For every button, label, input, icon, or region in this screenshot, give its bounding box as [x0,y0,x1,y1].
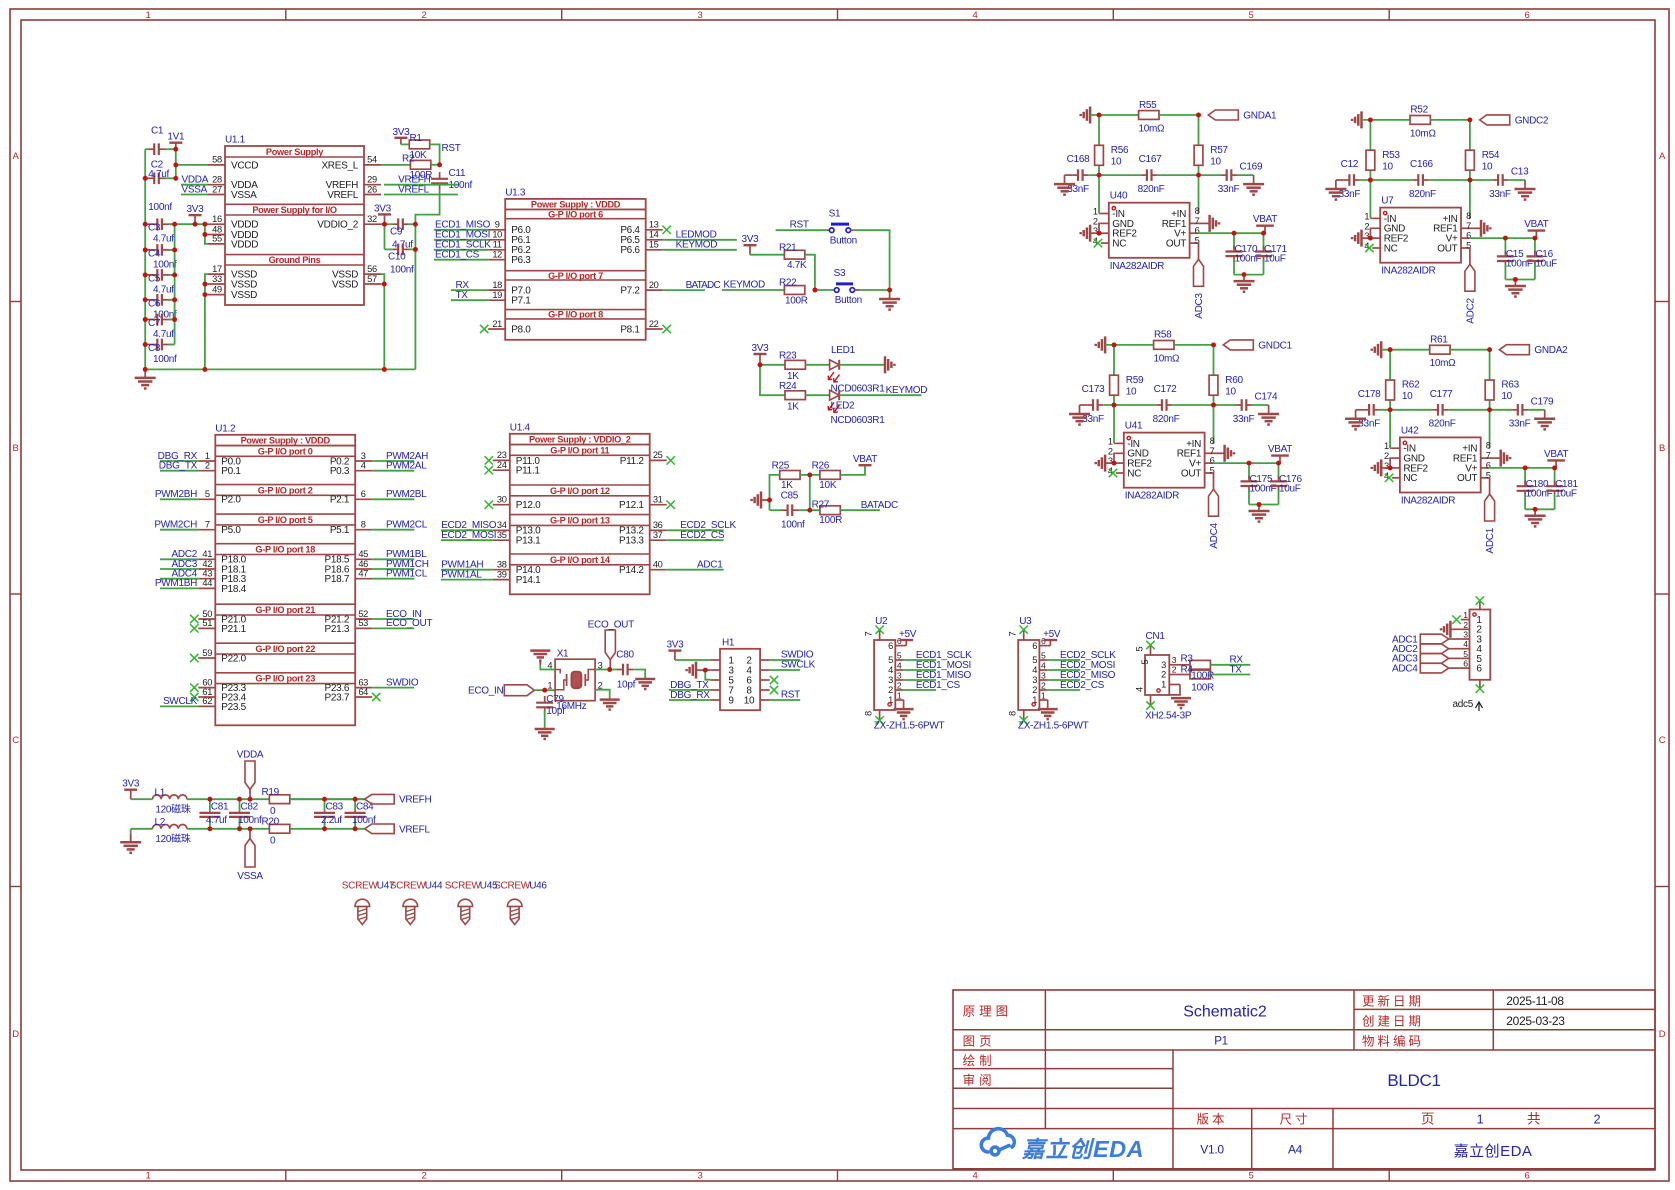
ground below C15 [1514,280,1516,287]
svg-text:C7: C7 [148,318,161,329]
wire R21 to KEYMOD node [805,255,815,290]
U1.2 section banner 'G-P I/O port 5' [215,513,355,515]
wire C79 to ground [544,711,546,730]
svg-text:46: 46 [358,559,368,569]
resistor R3 [1180,664,1190,666]
capacitor C15 [1504,238,1506,253]
wire bus down to U40 pin 1 [1098,175,1100,213]
wire U7 OUT to ADC2 flag [1468,248,1471,264]
net label RST wire from H1 [770,699,801,701]
U1.1 section banner 'Ground Pins' [225,254,364,256]
svg-text:820nF: 820nF [1138,184,1165,195]
svg-text:100nf: 100nf [153,259,177,270]
svg-text:PWM1AL: PWM1AL [441,569,482,580]
resistor R59 [1110,375,1119,395]
wire U40 OUT to ADC3 flag [1197,243,1200,259]
U1.4 pin 31 P12.1 [650,504,667,506]
junction [173,147,178,152]
svg-text:5: 5 [1140,660,1150,665]
U1.2 pin 7 P5.0 [198,529,215,531]
capacitor C171 [1263,233,1265,248]
capacitor C179 [1512,409,1518,411]
net label ECD2_SCLK wire from U1.4 [667,529,724,531]
wire C6 right to 3V3 rail [169,299,175,301]
wire L2 to VSSA rail [187,828,365,830]
wire LED2 KEYMOD [839,394,921,396]
ground at adc5 pin2 [1449,621,1452,638]
svg-text:TX: TX [456,290,469,301]
svg-text:1: 1 [205,451,210,461]
U1.4 pin 30 P12.0 [493,504,510,506]
svg-text:8: 8 [1008,711,1018,716]
wire C15 C16 bottom tie [1505,279,1535,281]
svg-text:7: 7 [1008,632,1018,637]
U1.2 section banner 'G-P I/O port 23' [215,672,355,674]
net label ADC2 wire to U1.2 [160,558,198,560]
net label BATADC wire from U1.3 [663,289,705,291]
no-connect adc5 pin1 [1452,615,1460,623]
svg-text:C168: C168 [1067,154,1090,165]
U2 pin 2 [895,689,903,691]
U1.2 pin 4 P0.3 [355,470,372,472]
svg-text:13: 13 [649,220,659,230]
U1.1 pin 33 VSSD [208,283,225,285]
wire C175 C176 bottom tie [1249,504,1279,506]
power flag +5V at U3 [1048,645,1051,647]
U3 pin 7 no-connect [1023,630,1025,640]
svg-text:OUT: OUT [1437,243,1457,254]
svg-text:3V3: 3V3 [742,234,760,245]
net label ECD2_MOSI wire from U3 [1048,669,1081,671]
svg-text:NC: NC [1112,239,1126,250]
svg-text:ADC3: ADC3 [1194,293,1205,319]
junction [203,292,208,297]
ground at U2 [894,708,914,711]
U1.3 pin 20 P7.2 [646,289,663,291]
H1 pin 9 [710,699,720,701]
svg-text:VDDD: VDDD [231,239,258,250]
capacitor C85 [770,509,782,511]
IC block U1.1 outline [225,146,364,305]
wire C166 to C13 [1429,179,1493,181]
resistor R62 [1386,380,1395,400]
net label KEYMOD wire to R22 [722,289,785,291]
svg-text:10: 10 [1382,161,1393,172]
svg-text:R57: R57 [1210,145,1228,156]
wire X1 pin3 node [595,669,618,671]
svg-text:C5: C5 [148,273,161,284]
wire R25 to R26 [800,474,820,476]
svg-text:5: 5 [888,655,893,665]
wire VDDIO_2 pin 32 to 3V3 and C9 [381,223,392,225]
wire C172 to C174 [1172,404,1236,406]
U1.2 section banner 'G-P I/O port 0' [215,445,355,447]
power flag 3V3 at C9 [384,214,386,224]
svg-text:VBAT: VBAT [1524,219,1548,230]
ground symbol left of R58 [1104,336,1107,353]
svg-text:33: 33 [212,274,222,284]
svg-text:L1: L1 [155,788,166,799]
svg-text:DBG_RX: DBG_RX [670,690,710,701]
svg-text:V1.0: V1.0 [1200,1143,1224,1157]
svg-text:C174: C174 [1255,392,1278,403]
junction [1487,347,1492,352]
svg-text:GNDC2: GNDC2 [1515,115,1549,126]
U1.2 pin 53 P21.3 [355,627,372,629]
net label ECD2_MOSI wire to U1.4 [441,539,493,541]
svg-text:C166: C166 [1410,159,1433,170]
svg-text:R20: R20 [262,817,280,828]
svg-text:2: 2 [897,681,902,691]
svg-text:R56: R56 [1111,145,1129,156]
svg-text:PWM2AL: PWM2AL [386,461,427,472]
svg-text:P13.1: P13.1 [516,536,541,547]
wire C3 right to 3V3 rail [169,223,175,225]
svg-text:33nF: 33nF [1489,189,1511,200]
net label VDDA wire to pin 28 [181,184,208,186]
wire C3-C8 right vertical [174,224,176,344]
wire bus down to U7 pin 8 [1469,180,1471,218]
U1.2 pin 59 P22.0 [198,657,215,659]
junction [413,222,418,227]
svg-text:40: 40 [653,560,663,570]
capacitor C10 [393,248,399,250]
wire C4 right to 3V3 rail [169,249,175,251]
svg-text:3: 3 [1172,655,1177,665]
U42 pin 4 NC [1392,477,1400,479]
U1.1 pin 16 VDDD [208,223,225,225]
U1.3 pin 15 P6.6 [646,249,663,251]
resistor R63 [1485,380,1494,400]
net flag ADC4 [1209,489,1219,516]
net label ECO_IN wire from U1.2 [372,618,414,620]
net label ADC1 wire from U1.4 [667,569,724,571]
svg-text:OUT: OUT [1166,239,1186,250]
junction [1097,173,1102,178]
svg-text:2: 2 [1108,446,1113,456]
wire ground to R58 [1105,344,1153,346]
U1.2 pin 62 P23.5 [198,705,215,707]
resistor R1 [401,143,409,145]
svg-text:C4: C4 [148,248,161,259]
resistor R52 (shunt) [1410,116,1430,125]
net label ECD2_MISO wire from U3 [1048,679,1081,681]
svg-text:KEYMOD: KEYMOD [676,240,718,251]
wire 3V3 to H1 pin1 [675,659,711,661]
svg-text:1: 1 [1093,207,1098,217]
net flag ECO_IN [504,685,534,696]
junction [322,797,327,802]
net label VREFL wire [384,194,458,196]
ground at U7 REF1 [1469,227,1481,229]
svg-text:页: 页 [1421,1112,1435,1127]
ground at X1 pin4 [540,662,555,670]
svg-text:39: 39 [497,569,507,579]
U7 pin 2 GND [1372,227,1380,229]
junction [1211,403,1216,408]
svg-text:ECD2_MOSI: ECD2_MOSI [441,530,496,541]
svg-text:P0.1: P0.1 [221,466,241,477]
capacitor C7 [145,319,158,321]
wire bus C168 to C167 [1088,174,1141,176]
resistor R55 (shunt) [1139,111,1159,120]
svg-text:H1: H1 [722,637,735,648]
svg-text:10: 10 [744,695,755,706]
U1.2 pin 41 P18.0 [198,558,215,560]
svg-text:3: 3 [1032,675,1037,685]
svg-text:R27: R27 [812,500,830,511]
svg-text:8: 8 [1195,206,1200,216]
svg-text:2: 2 [1041,681,1046,691]
svg-text:2: 2 [422,1171,427,1182]
svg-text:C3: C3 [148,223,161,234]
svg-text:P14.2: P14.2 [619,565,644,576]
ground below C179 [1528,409,1545,411]
svg-text:C80: C80 [616,650,634,661]
svg-text:100nf: 100nf [148,202,172,213]
capacitor C9 [393,223,399,225]
svg-text:+5V: +5V [899,629,917,640]
junction [143,367,148,372]
U1.2 pin 43 P18.3 [198,578,215,580]
svg-text:嘉立创EDA: 嘉立创EDA [1454,1143,1533,1160]
power flag 3V3 at H1 [674,651,676,660]
wire VDDD pins 16 48 55 tie [205,224,208,244]
U1.3 pin 18 P7.0 [488,289,505,291]
U1.3 section banner 'G-P I/O port 6' [505,208,646,210]
capacitor C170 [1233,233,1235,248]
svg-text:23: 23 [497,450,507,460]
ground symbol bottom left [144,369,146,378]
svg-text:6: 6 [1525,1171,1530,1182]
svg-text:2: 2 [1384,451,1389,461]
capacitor C1 [149,148,155,150]
net label PWM2CH wire to U1.2 [160,529,198,531]
net flag ADC1 [1485,494,1495,521]
svg-text:33nF: 33nF [1509,419,1531,430]
svg-text:LED1: LED1 [831,345,856,356]
capacitor C84 [354,799,356,811]
U41 pin 6 V+ [1205,462,1213,464]
svg-text:5: 5 [897,651,902,661]
svg-text:P23.7: P23.7 [325,692,350,703]
junction [1388,466,1393,471]
svg-text:Ground Pins: Ground Pins [269,255,321,265]
U1.4 section banner 'G-P I/O port 13' [510,514,650,516]
svg-text:P2.1: P2.1 [330,495,350,506]
title block grid lines [953,1029,1655,1031]
net flag ADC3 [1194,259,1204,286]
svg-text:C81: C81 [211,801,229,812]
svg-text:1K: 1K [781,480,793,491]
junction [1196,113,1201,118]
svg-text:P6.3: P6.3 [511,255,531,266]
svg-text:33nF: 33nF [1082,414,1104,425]
ground at C79 [535,728,555,731]
ground symbol left of R52 [1360,111,1363,128]
svg-text:P22.0: P22.0 [221,653,246,664]
U1.2 pin 61 P23.4 [198,696,215,698]
svg-text:A: A [12,151,19,162]
svg-text:4: 4 [1463,639,1468,649]
svg-text:P18.4: P18.4 [221,584,246,595]
svg-text:10: 10 [1111,157,1122,168]
svg-text:1: 1 [1041,691,1046,701]
svg-text:INA282AIDR: INA282AIDR [1125,491,1179,502]
U3 pin 2 [1039,689,1047,691]
U1.3 pin 9 P6.0 [488,229,505,231]
H1 pin 6 [760,679,770,681]
U1.4 section banner 'G-P I/O port 12' [510,484,650,486]
svg-text:3: 3 [1161,660,1166,670]
wire ECO_IN to X1 pin1 [534,689,555,691]
svg-text:4: 4 [1041,661,1046,671]
svg-text:P7.2: P7.2 [620,286,640,297]
wire X1 pin2 to ground [595,690,610,700]
svg-text:58: 58 [212,155,222,165]
svg-text:100nf: 100nf [781,520,805,531]
svg-text:G-P I/O port 12: G-P I/O port 12 [550,486,610,496]
resistor R21 [784,250,804,259]
power flag 3V3 at R21 [749,245,751,255]
svg-text:RST: RST [442,143,461,154]
ground below C168 [1065,174,1073,176]
connector U2 ZX-ZH1.5-6PWT outline [874,640,895,710]
svg-text:R63: R63 [1501,380,1519,391]
svg-text:U7: U7 [1381,196,1394,207]
svg-text:NC: NC [1384,243,1398,254]
svg-text:24: 24 [497,460,507,470]
net label ECD1_MISO wire from U2 [904,679,937,681]
svg-text:4.7uf: 4.7uf [206,815,227,826]
svg-text:10: 10 [1501,391,1512,402]
wire bus C12 to C166 [1360,179,1413,181]
capacitor C181 [1554,468,1556,483]
resistor R2 [410,160,430,169]
net label PWM1BH wire to U1.2 [160,587,198,589]
junction [1468,118,1473,123]
svg-text:S3: S3 [834,268,846,279]
net label PWM2BH wire to U1.2 [160,498,198,500]
wire VCCD net vertical [175,149,177,178]
resistor R24 [785,391,805,400]
resistor R57 [1194,145,1203,165]
svg-text:54: 54 [367,155,377,165]
net label SWCLK wire from H1 [770,669,801,671]
U1.2 pin 52 P21.2 [355,618,372,620]
svg-text:2: 2 [422,10,427,21]
svg-text:20: 20 [649,280,659,290]
svg-text:Button: Button [835,295,862,306]
svg-text:adc5: adc5 [1453,699,1474,710]
svg-text:0: 0 [270,835,276,846]
svg-text:绘制: 绘制 [963,1053,996,1068]
net flag GNDA1 [1208,110,1238,120]
svg-text:VCCD: VCCD [231,160,258,171]
wire C7 right to 3V3 rail [169,319,175,321]
junction [807,473,812,478]
ground at C85 [761,499,770,501]
svg-text:XRES_L: XRES_L [321,160,358,171]
wire ground to R52 [1362,119,1410,121]
U1.3 section banner 'Power Supply : VDDD' [505,208,646,210]
wire 3V3 to pin16 [175,223,208,225]
U1.1 section banner 'Power Supply' [225,156,364,158]
ground at U41 REF2 [1105,462,1114,464]
svg-text:7: 7 [1466,221,1471,231]
no-connect H1 pin6 [770,676,778,684]
svg-text:G-P I/O port 23: G-P I/O port 23 [255,674,315,684]
U41 pin 1 -IN [1116,442,1124,444]
ground at U40 REF2 [1090,232,1099,234]
U1.3 section banner 'G-P I/O port 8' [505,309,646,311]
svg-text:P7.1: P7.1 [511,296,531,307]
CN1 pin 2 [1169,674,1180,676]
svg-text:R60: R60 [1225,375,1243,386]
net label SWDIO wire from H1 [770,659,801,661]
svg-text:43: 43 [202,569,212,579]
wire U41 OUT to ADC4 flag [1212,473,1215,489]
U1.4 pin 37 P13.3 [650,539,667,541]
wire bus C173 to C172 [1103,404,1156,406]
U3 pin1 to ground [1039,700,1047,709]
U41 pin 7 REF1 [1205,452,1213,454]
svg-text:59: 59 [202,648,212,658]
svg-text:17: 17 [212,264,222,274]
svg-text:4: 4 [973,10,978,21]
svg-text:VDDA: VDDA [237,750,264,761]
CN1 pin 1 [1169,684,1180,686]
net label RX wire from R3 [1210,664,1250,666]
svg-text:VREFL: VREFL [398,184,429,195]
no-connect H1 pin8 [770,686,778,694]
wire R19 to VREFH [290,798,365,800]
svg-text:10: 10 [1210,157,1221,168]
svg-text:820nF: 820nF [1153,414,1180,425]
U3 pin 6 [1039,645,1047,647]
U40 pin 4 NC [1101,242,1109,244]
svg-text:53: 53 [358,618,368,628]
svg-text:3: 3 [888,675,893,685]
svg-text:Power Supply : VDDIO_2: Power Supply : VDDIO_2 [529,435,631,445]
U1.1 pin 58 VCCD [208,164,225,166]
wire U7 V+ to VBAT [1469,237,1535,239]
wire R55 right down to R57 [1198,115,1200,175]
wire R61 right down to R63 [1489,350,1491,410]
svg-text:R52: R52 [1410,105,1428,116]
junction [203,367,208,372]
junction [607,667,612,672]
svg-text:R24: R24 [779,381,797,392]
junction [767,498,772,503]
ground at S3 [889,290,891,299]
svg-text:ZX-ZH1.5-6PWT: ZX-ZH1.5-6PWT [1018,721,1089,732]
wire C177 to C179 [1448,409,1512,411]
svg-text:R55: R55 [1139,100,1157,111]
junction [887,288,892,293]
junction [248,826,253,831]
net label LEDMOD wire from U1.3 [663,239,737,241]
U3 pin 1 [1039,699,1047,701]
U1.2 pin 51 P21.1 [198,627,215,629]
svg-text:4: 4 [888,665,893,675]
U40 pin 1 -IN [1101,213,1109,215]
svg-text:ZX-ZH1.5-6PWT: ZX-ZH1.5-6PWT [874,721,945,732]
wire XRES_L to R2 [381,164,410,166]
U1.1 pin 55 VDDD [208,243,225,245]
svg-text:G-P I/O port 22: G-P I/O port 22 [255,644,315,654]
U1.3 pin 11 P6.2 [488,249,505,251]
